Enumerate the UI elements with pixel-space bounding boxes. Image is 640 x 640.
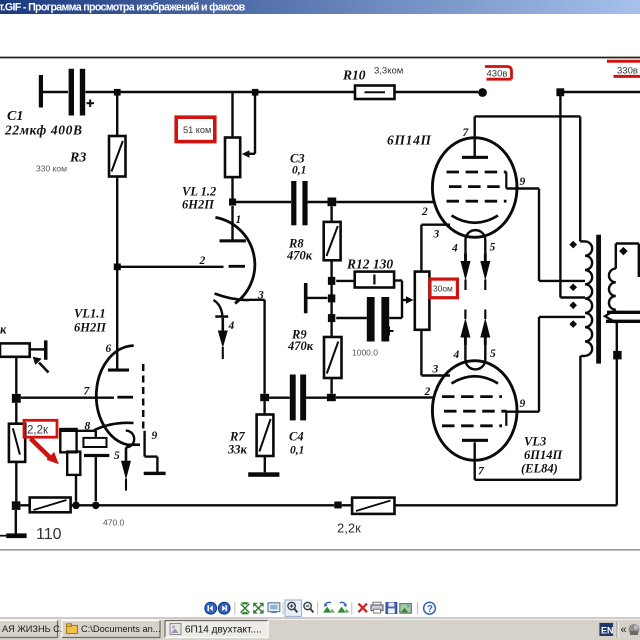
svg-text:2,2к: 2,2к — [337, 521, 361, 536]
svg-text:VL 1.2: VL 1.2 — [182, 185, 216, 199]
svg-text:30ом: 30ом — [433, 284, 453, 294]
svg-text:0,1: 0,1 — [292, 165, 306, 177]
svg-text:33к: 33к — [227, 443, 248, 457]
svg-text:C3: C3 — [290, 152, 305, 166]
svg-text:430в: 430в — [487, 69, 508, 80]
svg-text:6П14П: 6П14П — [524, 448, 563, 462]
svg-text:330в: 330в — [617, 66, 638, 77]
svg-text:VL1.1: VL1.1 — [74, 307, 106, 321]
svg-text:6П14П: 6П14П — [387, 133, 432, 148]
svg-text:9: 9 — [520, 398, 526, 410]
svg-text:?: ? — [427, 604, 433, 615]
svg-text:6П14 двухтакт....: 6П14 двухтакт.... — [185, 625, 262, 636]
svg-text:330 ком: 330 ком — [36, 164, 67, 174]
svg-text:4: 4 — [451, 243, 458, 255]
svg-text:5: 5 — [114, 450, 120, 462]
svg-text:4: 4 — [453, 349, 460, 361]
svg-text:(EL84): (EL84) — [521, 462, 558, 476]
svg-text:1000.0: 1000.0 — [352, 348, 378, 358]
svg-text:R12 130: R12 130 — [346, 257, 393, 272]
svg-text:3,3ком: 3,3ком — [374, 66, 403, 77]
svg-text:т.GIF - Программа просмотра из: т.GIF - Программа просмотра изображений … — [0, 2, 246, 14]
svg-text:0,1: 0,1 — [290, 445, 304, 457]
svg-text:3: 3 — [433, 229, 440, 241]
svg-text:6Н2П: 6Н2П — [182, 198, 215, 212]
svg-text:«: « — [621, 624, 627, 636]
svg-text:3: 3 — [257, 290, 264, 302]
svg-text:C4: C4 — [289, 430, 304, 444]
svg-text:2: 2 — [424, 386, 431, 398]
svg-text:470к: 470к — [286, 249, 313, 263]
svg-text:9: 9 — [520, 176, 526, 188]
svg-text:2: 2 — [421, 206, 428, 218]
svg-text:R3: R3 — [69, 151, 86, 166]
svg-text:4: 4 — [228, 320, 235, 332]
svg-text:EN: EN — [601, 625, 614, 635]
svg-text:к: к — [0, 323, 7, 337]
svg-text:АЯ ЖИЗНЬ С...: АЯ ЖИЗНЬ С... — [2, 624, 67, 634]
svg-text:470.0: 470.0 — [103, 518, 125, 528]
svg-text:2,2к: 2,2к — [27, 425, 49, 437]
svg-text:R10: R10 — [342, 68, 366, 83]
svg-text:R7: R7 — [229, 430, 245, 444]
svg-text:470к: 470к — [287, 339, 314, 353]
svg-text:5: 5 — [490, 242, 496, 254]
svg-text:22мкф 400В: 22мкф 400В — [4, 123, 83, 138]
svg-text:6: 6 — [106, 343, 112, 355]
svg-text:C:\Documents an...: C:\Documents an... — [81, 624, 161, 634]
svg-text:6Н2П: 6Н2П — [74, 321, 107, 335]
svg-text:8: 8 — [85, 421, 91, 433]
svg-text:2: 2 — [199, 255, 206, 267]
svg-text:9: 9 — [152, 430, 158, 442]
svg-text:51 ком: 51 ком — [183, 125, 211, 135]
svg-text:5: 5 — [490, 348, 496, 360]
svg-text:VL3: VL3 — [524, 435, 546, 449]
svg-text:1: 1 — [236, 214, 242, 226]
svg-text:110: 110 — [36, 526, 62, 543]
svg-text:3: 3 — [432, 364, 439, 376]
